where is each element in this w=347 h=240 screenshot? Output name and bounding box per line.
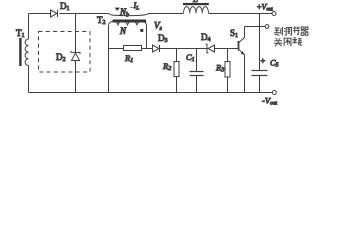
wire +V rail lower: [259, 76, 261, 93]
transistor S1 collector: [239, 27, 245, 43]
polarity dot Nb: [115, 8, 120, 11]
capacitor C1: [196, 49, 198, 72]
transformer T1 core: [19, 38, 21, 66]
char duan: [292, 38, 302, 45]
svg-text:N: N: [119, 26, 127, 36]
wire +V rail upper: [259, 14, 261, 71]
char tiao: [284, 28, 292, 36]
inductor L winding: [184, 7, 209, 14]
svg-text:D2: D2: [56, 52, 66, 63]
wire left vertical bottom: [28, 66, 30, 93]
wire collector stub: [245, 26, 266, 28]
current label IL: [130, 7, 132, 9]
wire zener to bottom rail: [75, 61, 77, 93]
wire: [142, 48, 153, 50]
transformer T1 winding: [25, 39, 28, 66]
svg-text:D3: D3: [158, 33, 168, 44]
svg-text:Nb: Nb: [119, 7, 129, 19]
text to-regulator-shutdown line1: [274, 27, 308, 47]
terminal -Vout: [272, 91, 276, 95]
wire: [160, 48, 208, 50]
wire: [215, 48, 238, 50]
wire secondary right: [146, 26, 148, 49]
char qi: [301, 27, 308, 35]
resistor R1: [124, 46, 142, 51]
resistor R2: [176, 49, 178, 62]
zener diode D4: [206, 44, 209, 53]
svg-text:+: +: [261, 56, 266, 66]
char jie: [293, 27, 300, 35]
svg-text:T2: T2: [97, 15, 106, 26]
svg-text:C1: C1: [186, 52, 195, 63]
svg-text:D4: D4: [201, 32, 211, 43]
resistor R3: [227, 49, 229, 62]
svg-text:+Vout: +Vout: [257, 3, 273, 13]
terminal +Vout: [272, 12, 276, 16]
wire node to zener: [75, 14, 77, 53]
wire top rail mid: [60, 13, 109, 15]
zener diode D2: [71, 51, 80, 54]
svg-text:S1: S1: [230, 28, 238, 39]
svg-text:R2: R2: [162, 61, 171, 72]
svg-text:D1: D1: [60, 1, 70, 12]
transformer T2 winding N: [109, 21, 147, 25]
char guan: [274, 38, 282, 46]
svg-text:C5: C5: [270, 58, 279, 69]
char bi: [284, 38, 291, 46]
svg-text:L: L: [192, 0, 198, 4]
char dao: [274, 27, 282, 36]
dashed box: [39, 32, 91, 73]
terminal shutdown circle: [265, 25, 269, 29]
svg-text:-Vout: -Vout: [262, 96, 278, 107]
wire top rail left: [29, 13, 51, 15]
svg-text:R3: R3: [215, 63, 224, 74]
svg-text:R1: R1: [124, 53, 133, 64]
wire top rail right: [209, 13, 273, 15]
svg-text:IL: IL: [133, 1, 140, 12]
diode D3: [153, 45, 160, 52]
transformer T2 winding Nb sag: [109, 14, 149, 16]
capacitor C5 output: [252, 70, 268, 72]
wire bottom rail: [29, 92, 273, 94]
svg-text:T1: T1: [16, 28, 25, 39]
wire left vertical top: [28, 14, 30, 40]
transistor S1 base bar: [238, 41, 240, 51]
svg-text:Vs: Vs: [154, 21, 163, 33]
inductor L core: [183, 3, 209, 5]
diode D1: [51, 10, 58, 17]
transformer T2 core: [113, 20, 147, 23]
wire secondary left: [108, 26, 110, 93]
polarity dot N: [140, 29, 143, 32]
wire base row: [109, 48, 124, 50]
wire top rail mid2: [149, 13, 184, 15]
transistor S1 emitter: [239, 50, 245, 93]
